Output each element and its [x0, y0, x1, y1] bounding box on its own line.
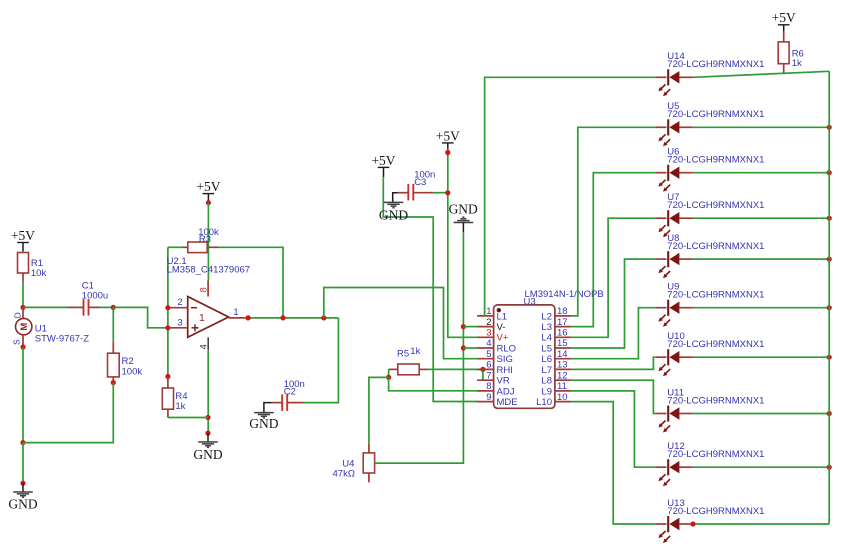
svg-text:R5: R5	[397, 348, 409, 359]
svg-text:LM3914N-1/NOPB: LM3914N-1/NOPB	[525, 289, 604, 300]
svg-text:720-LCGH9RNMXNX1: 720-LCGH9RNMXNX1	[667, 200, 764, 211]
svg-text:GND: GND	[8, 497, 37, 512]
svg-text:+5V: +5V	[11, 228, 35, 243]
svg-text:720-LCGH9RNMXNX1: 720-LCGH9RNMXNX1	[667, 290, 764, 301]
svg-text:1k: 1k	[792, 58, 802, 69]
svg-text:SIG: SIG	[497, 354, 513, 365]
svg-text:MDE: MDE	[497, 397, 518, 408]
svg-text:720-LCGH9RNMXNX1: 720-LCGH9RNMXNX1	[667, 59, 764, 70]
svg-text:L1: L1	[497, 311, 508, 322]
svg-text:11: 11	[557, 381, 567, 392]
svg-text:4: 4	[199, 344, 210, 349]
svg-text:C2: C2	[284, 386, 296, 397]
svg-text:V-: V-	[497, 322, 506, 333]
svg-text:17: 17	[557, 317, 568, 328]
svg-text:GND: GND	[193, 447, 222, 462]
svg-text:2: 2	[486, 317, 491, 328]
svg-text:L2: L2	[541, 311, 552, 322]
svg-text:L5: L5	[541, 343, 552, 354]
svg-text:+5V: +5V	[772, 10, 796, 25]
svg-text:10k: 10k	[31, 268, 47, 279]
svg-text:720-LCGH9RNMXNX1: 720-LCGH9RNMXNX1	[667, 339, 764, 350]
svg-text:12: 12	[557, 370, 568, 381]
svg-text:10: 10	[557, 392, 568, 403]
svg-text:2: 2	[177, 297, 182, 308]
svg-text:9: 9	[486, 392, 491, 403]
svg-text:U3: U3	[524, 297, 536, 308]
svg-text:S: S	[12, 339, 22, 345]
svg-text:720-LCGH9RNMXNX1: 720-LCGH9RNMXNX1	[667, 449, 764, 460]
svg-text:8: 8	[486, 381, 491, 392]
svg-text:1k: 1k	[410, 346, 420, 357]
svg-text:LM358_C41379067: LM358_C41379067	[167, 265, 250, 276]
svg-text:720-LCGH9RNMXNX1: 720-LCGH9RNMXNX1	[667, 241, 764, 252]
svg-text:47kΩ: 47kΩ	[333, 468, 355, 479]
svg-text:1: 1	[233, 307, 238, 318]
svg-text:M: M	[19, 323, 30, 331]
svg-text:8: 8	[198, 287, 209, 292]
svg-text:L6: L6	[541, 354, 552, 365]
svg-text:ADJ: ADJ	[497, 386, 515, 397]
svg-text:6: 6	[486, 360, 491, 371]
svg-text:+5V: +5V	[196, 179, 220, 194]
svg-text:L10: L10	[536, 397, 552, 408]
svg-text:5: 5	[486, 349, 491, 360]
svg-text:1: 1	[486, 306, 491, 317]
svg-text:V+: V+	[497, 333, 509, 344]
svg-text:1k: 1k	[175, 401, 185, 412]
svg-text:L7: L7	[541, 365, 552, 376]
svg-text:18: 18	[557, 306, 568, 317]
svg-text:720-LCGH9RNMXNX1: 720-LCGH9RNMXNX1	[667, 155, 764, 166]
svg-text:100k: 100k	[122, 366, 143, 377]
svg-text:13: 13	[557, 360, 568, 371]
svg-text:3: 3	[486, 328, 491, 339]
svg-text:720-LCGH9RNMXNX1: 720-LCGH9RNMXNX1	[667, 109, 764, 120]
svg-text:720-LCGH9RNMXNX1: 720-LCGH9RNMXNX1	[667, 395, 764, 406]
svg-text:7: 7	[486, 370, 491, 381]
svg-text:D: D	[13, 312, 23, 318]
svg-text:GND: GND	[249, 416, 278, 431]
svg-text:3: 3	[177, 317, 182, 328]
svg-text:GND: GND	[379, 207, 408, 222]
svg-text:L3: L3	[541, 322, 552, 333]
svg-text:720-LCGH9RNMXNX1: 720-LCGH9RNMXNX1	[667, 506, 764, 517]
svg-text:L9: L9	[541, 386, 552, 397]
svg-text:L8: L8	[541, 376, 552, 387]
svg-text:RHI: RHI	[497, 365, 513, 376]
svg-text:+5V: +5V	[371, 153, 395, 168]
svg-text:STW-9767-Z: STW-9767-Z	[35, 334, 89, 345]
svg-text:1: 1	[199, 312, 205, 324]
svg-text:16: 16	[557, 328, 568, 339]
svg-text:VR: VR	[497, 376, 510, 387]
svg-text:RLO: RLO	[497, 343, 517, 354]
svg-text:R3: R3	[199, 234, 211, 245]
svg-text:14: 14	[557, 349, 568, 360]
svg-text:+5V: +5V	[436, 128, 460, 143]
svg-text:1000u: 1000u	[82, 291, 108, 302]
svg-text:GND: GND	[449, 201, 478, 216]
svg-text:4: 4	[486, 338, 491, 349]
svg-text:C3: C3	[414, 177, 426, 188]
svg-text:L4: L4	[541, 333, 552, 344]
svg-text:15: 15	[557, 338, 568, 349]
